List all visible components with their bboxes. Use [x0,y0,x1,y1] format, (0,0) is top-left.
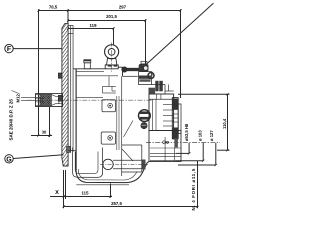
housing outline [73,67,138,171]
flange studs left [58,73,62,78]
svg-text:257,5: 257,5 [111,201,122,206]
input shaft [36,94,63,107]
cooler fitting ring [148,73,154,79]
inner wall lines right [117,96,119,150]
svg-text:SAE 20/40 D.P. Z 26: SAE 20/40 D.P. Z 26 [8,99,13,141]
svg-text:G: G [6,156,12,163]
svg-text:N. 4 FORI ø11,5: N. 4 FORI ø11,5 [191,168,196,210]
engine mounting flange hatched [0,23,175,166]
dimension 30 spline [31,130,52,137]
svg-text:ø53,5 H8: ø53,5 H8 [184,123,189,141]
extension x63.7 [63,170,65,208]
foot lower right [149,131,181,162]
svg-text:119: 119 [90,23,98,28]
diagonal rib near sight glass [124,121,134,138]
svg-text:110,4: 110,4 [222,118,227,129]
output bearing block [149,94,174,131]
leader F [13,48,61,50]
valve clamp dark [139,61,149,71]
ladder line dia127 [178,143,217,166]
step lines right of valve [165,90,174,92]
leader SAE [12,91,20,94]
extension y150.2 [217,149,230,151]
extension x110.2 [110,184,112,198]
extension line x113.7 [113,28,115,45]
leader to valve diagonal [145,3,214,65]
housing inner wall [121,76,123,176]
dimension 119 [67,23,115,30]
svg-text:M12: M12 [15,94,20,103]
dimension 78,5 top [37,4,69,11]
dimension 110,4 vertical [222,93,229,151]
extension x197 [197,161,199,208]
control lever [122,67,139,72]
label G [5,155,13,164]
internal stepped wall [76,76,116,97]
valve body [139,72,152,85]
output coupling flange [172,98,181,139]
flange drain plug [67,146,71,152]
svg-text:115: 115 [82,191,90,196]
ladder line dia53.5 [176,143,190,155]
svg-text:78,5: 78,5 [49,4,58,9]
svg-text:F: F [7,46,12,53]
svg-text:30: 30 [42,130,47,135]
sump pocket [73,148,103,178]
top step lines right of valve [152,72,166,94]
svg-text:297: 297 [119,4,127,9]
svg-text:ø 103: ø 103 [197,130,202,141]
extension line right x180.7 [180,9,182,98]
plug below sight glass [141,123,147,129]
boss upper with bolt [102,100,116,112]
leader M12 b [21,99,40,101]
leader M12 a [21,96,40,98]
input centerline [27,99,152,101]
dimension 297 top [68,4,182,11]
cooler hose fittings dark [149,81,163,94]
lower middle block [122,145,142,172]
bell adapter rings [68,25,76,152]
svg-text:201,5: 201,5 [106,14,117,19]
lower cylinder boss [100,159,148,169]
boss lower with bolt [101,132,115,144]
extension line x145.5 [145,19,147,65]
extension line x49.4 [49,107,51,137]
extension top y94.3 [178,93,230,95]
dimension 201,5 [67,14,147,22]
extension line flange x68 [67,9,69,23]
sump bottom [76,162,149,185]
svg-text:X: X [55,190,59,196]
extension line left x38 [38,9,40,135]
svg-text:ø 127: ø 127 [209,130,214,141]
oil filler plug [84,60,91,69]
output centerline [146,141,220,143]
dimension 257,5 [63,201,199,208]
label F [5,44,13,53]
centerline cross mark [163,141,166,144]
leader G [13,155,63,159]
ladder line dia103 [176,143,205,162]
pedestal base bolts [108,65,112,67]
dimension 115 [50,191,112,198]
lifting eye pedestal [105,58,118,68]
extension x65.7 [65,170,67,199]
lifting eye bolt [105,45,119,59]
vertical centerline eyebolt [111,43,113,74]
interior top lines [76,71,118,76]
input shaft splines [26,95,66,106]
sight glass [139,110,151,122]
